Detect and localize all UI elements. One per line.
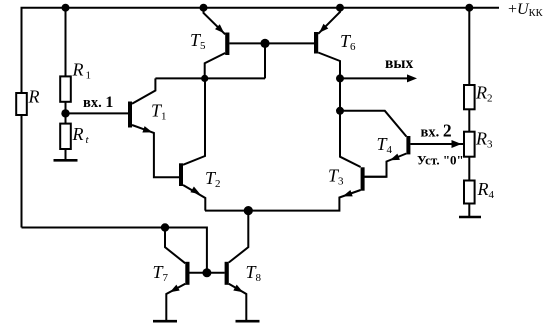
svg-text:Уст. "0": Уст. "0" <box>417 153 464 168</box>
label vkh. 2 <box>421 121 452 141</box>
transistor T8 <box>207 262 246 320</box>
wire T3 collector <box>340 111 361 167</box>
label Ust. "0" <box>417 153 464 168</box>
wire output down to T3-T4 node <box>339 78 341 110</box>
wire collector bus y78 <box>155 77 265 79</box>
wire rail to R1 <box>65 8 67 77</box>
resistor R <box>16 8 27 115</box>
wire rail to R2 <box>468 8 470 85</box>
wire output with arrow <box>340 74 417 82</box>
transistor T4 <box>364 136 410 177</box>
label +Ukk <box>508 1 544 19</box>
resistor R1 <box>60 76 71 101</box>
label T1 <box>151 100 167 122</box>
node +Ukk rail junction at R2 branch <box>465 4 473 12</box>
label T5 <box>190 30 206 52</box>
resistor R2 <box>464 85 475 109</box>
label R1 <box>72 59 92 81</box>
wire T5 base to T6 base <box>229 42 314 44</box>
label T3 <box>328 165 344 187</box>
label R3 <box>475 128 493 150</box>
node T7 collector junction <box>161 223 169 231</box>
svg-text:вых: вых <box>385 55 413 72</box>
wire left feedback to mirror bases <box>22 228 207 273</box>
label vkh. 1 <box>83 94 113 111</box>
node output junction <box>336 74 344 82</box>
wire +Ukk top supply rail <box>22 8 500 228</box>
ground below Rt <box>54 159 78 162</box>
wire Rt to ground <box>65 149 67 159</box>
label T2 <box>205 168 221 190</box>
svg-text:вх. 1: вх. 1 <box>83 94 113 111</box>
transistor T7 <box>165 228 207 321</box>
label R2 <box>475 82 493 104</box>
transistor T2 <box>179 78 205 210</box>
transistor T1 <box>128 78 179 177</box>
ground below T7 <box>153 320 177 323</box>
node T7-T8 base junction <box>202 268 211 277</box>
wire R2 to R3 <box>468 109 470 131</box>
wire vkh.1 to T1 base <box>66 112 129 114</box>
node T1-T5-T2 collector junction <box>201 75 208 82</box>
node +Ukk rail junction at T5 emitter <box>200 4 208 12</box>
resistor R4 <box>464 181 475 204</box>
label Rt <box>72 124 90 146</box>
transistor T3 <box>205 167 387 210</box>
wire base tie to collector bus <box>264 43 266 78</box>
transistor T5 <box>204 8 230 79</box>
node +Ukk rail junction at T6 emitter <box>336 4 344 12</box>
label T4 <box>377 134 393 156</box>
node vkh.1 input junction <box>61 109 69 117</box>
node emitter bus junction <box>244 206 253 215</box>
wire T4 collector <box>340 111 406 137</box>
wire R4 to ground <box>468 204 470 217</box>
wire T4 base to R3 wiper with arrow <box>410 140 463 148</box>
node +Ukk rail junction at R1 branch <box>62 4 70 12</box>
label R4 <box>477 179 495 201</box>
label T8 <box>246 262 262 284</box>
resistor R3 potentiometer <box>464 132 475 157</box>
node T3-T4 collector junction <box>336 107 344 115</box>
wire R3 to R4 <box>468 157 470 181</box>
label T6 <box>340 31 356 53</box>
node T5-T6 base junction <box>260 39 269 48</box>
label R <box>28 87 40 107</box>
svg-text:R: R <box>28 87 40 107</box>
resistor Rt <box>60 124 71 149</box>
wire R1 to input node <box>65 102 67 124</box>
ground below T8 <box>236 320 260 323</box>
wire emitter bus to T8 collector <box>229 211 249 263</box>
label vykh <box>385 55 413 72</box>
transistor T6 <box>314 8 340 79</box>
label T7 <box>153 262 169 284</box>
ground below R4 <box>459 216 481 219</box>
